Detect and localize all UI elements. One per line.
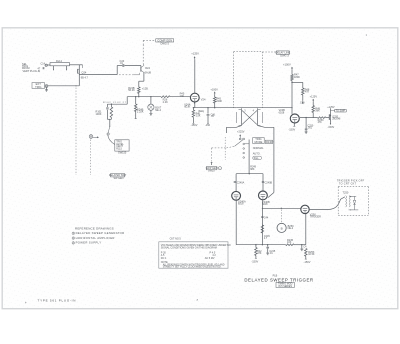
svg-text:+12B: +12B: [142, 86, 148, 90]
svg-text:Q24: Q24: [81, 70, 87, 74]
svg-text:DWG 5: DWG 5: [161, 42, 170, 46]
svg-text:SW GEN: SW GEN: [114, 177, 124, 180]
svg-text:REFERENCE DRAWINGS: REFERENCE DRAWINGS: [75, 226, 114, 230]
svg-text:SW15: SW15: [208, 170, 215, 173]
svg-text:(SEL): (SEL): [198, 110, 204, 113]
svg-text:C44: C44: [264, 216, 269, 219]
svg-text:-150V: -150V: [288, 128, 295, 132]
svg-text:100K: 100K: [96, 112, 102, 116]
svg-text:2N2048: 2N2048: [332, 119, 341, 121]
svg-text:+: +: [25, 301, 27, 305]
svg-text:TRIG: TRIG: [35, 85, 41, 89]
svg-text:+100V: +100V: [210, 88, 218, 92]
svg-text:TO SWP: TO SWP: [336, 109, 346, 112]
svg-text:.001: .001: [307, 128, 312, 130]
svg-text:C49: C49: [300, 102, 305, 105]
svg-text:SW155: SW155: [118, 150, 127, 154]
svg-text:TO CRT CKT: TO CRT CKT: [339, 182, 357, 185]
svg-text:47K: 47K: [257, 253, 262, 255]
svg-text:V24: V24: [201, 97, 206, 101]
svg-text:T250: T250: [343, 190, 349, 194]
svg-text:56.2K: 56.2K: [128, 88, 135, 92]
svg-text:100: 100: [180, 94, 185, 98]
svg-text:R240: R240: [266, 140, 273, 144]
svg-text:2.2K: 2.2K: [163, 100, 169, 104]
svg-text:6DJ8: 6DJ8: [262, 204, 268, 206]
svg-text:DWG 3: DWG 3: [280, 54, 289, 58]
svg-text:-150V: -150V: [191, 123, 198, 127]
svg-text:10.5K: 10.5K: [308, 253, 315, 256]
svg-text:HORIZONTAL AMPLIFIER: HORIZONTAL AMPLIFIER: [76, 236, 115, 240]
svg-text:NE-2: NE-2: [288, 227, 294, 230]
svg-text:DELAYED SWEEP GENERATOR: DELAYED SWEEP GENERATOR: [76, 231, 125, 235]
svg-text:6DJ8: 6DJ8: [238, 204, 244, 206]
svg-text:C240A: C240A: [237, 182, 245, 185]
svg-text:220K: 220K: [216, 99, 222, 103]
svg-text:AC 5 MV: AC 5 MV: [205, 257, 215, 260]
svg-text:39K: 39K: [315, 109, 320, 113]
svg-text:6DJ8: 6DJ8: [184, 105, 190, 108]
svg-text:47K: 47K: [305, 90, 310, 94]
svg-text:+100V: +100V: [283, 63, 291, 67]
svg-text:6B 4.7: 6B 4.7: [81, 77, 89, 80]
svg-text:6DJ8: 6DJ8: [279, 111, 285, 114]
svg-text:47K: 47K: [318, 122, 323, 124]
svg-text:+125V: +125V: [327, 105, 335, 109]
svg-text:R24: R24: [145, 66, 150, 70]
svg-text:-150V: -150V: [304, 260, 311, 264]
svg-text:2.25K: 2.25K: [137, 110, 144, 114]
svg-text:1.5K: 1.5K: [196, 116, 201, 118]
svg-text:+125V: +125V: [191, 52, 199, 56]
svg-text:B: B: [281, 226, 283, 230]
svg-text:TRIGGER: TRIGGER: [310, 216, 321, 219]
svg-text:-150: -150: [205, 123, 211, 127]
svg-text:68K: 68K: [250, 168, 255, 171]
svg-text:C240B: C240B: [265, 182, 273, 185]
svg-text:CKT NO 5: CKT NO 5: [170, 238, 182, 241]
svg-text:MODE: MODE: [254, 140, 262, 144]
svg-text:NORMAL: NORMAL: [253, 146, 264, 150]
svg-text:AUTO.: AUTO.: [253, 152, 261, 156]
svg-text:TYPE 561 PLUG-IN: TYPE 561 PLUG-IN: [38, 298, 77, 302]
svg-text:DC 1: DC 1: [161, 257, 167, 260]
svg-text:-150V: -150V: [251, 260, 258, 264]
svg-text:IN 5 SERIES: IN 5 SERIES: [278, 285, 292, 288]
svg-text:+225V: +225V: [237, 130, 245, 134]
svg-text:STABILITY SET FULLY CLOCKWISE: STABILITY SET FULLY CLOCKWISE UNLESS NOT…: [163, 265, 223, 268]
svg-text:6AU8: 6AU8: [145, 71, 152, 75]
svg-text:NE-2: NE-2: [155, 108, 161, 112]
svg-text:10K: 10K: [287, 241, 292, 244]
svg-text:R115: R115: [116, 148, 122, 151]
svg-text:SIGNAL CONDITIONS GIVEN ON THI: SIGNAL CONDITIONS GIVEN ON THIS DIAGRAM: [161, 247, 217, 250]
svg-text:180K: 180K: [294, 75, 300, 79]
svg-text:DL14: DL14: [56, 60, 62, 63]
svg-text:POWER SUPPLY: POWER SUPPLY: [76, 241, 102, 245]
svg-text:+125V: +125V: [310, 95, 318, 99]
svg-text:-150V: -150V: [327, 125, 334, 129]
svg-text:SGL: SGL: [254, 157, 260, 160]
